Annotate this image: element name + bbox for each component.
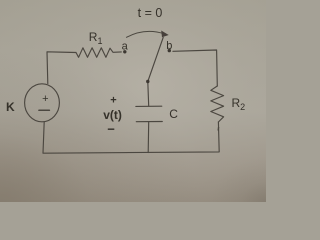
svg-text:t = 0: t = 0	[138, 6, 163, 20]
svg-text:+: +	[42, 93, 48, 105]
svg-text:C: C	[169, 107, 178, 121]
svg-text:v(t): v(t)	[103, 108, 122, 122]
svg-text:K: K	[6, 100, 15, 114]
svg-text:+: +	[110, 95, 116, 107]
svg-text:b: b	[166, 40, 172, 52]
svg-text:a: a	[122, 41, 129, 53]
svg-text:−: −	[107, 122, 115, 137]
